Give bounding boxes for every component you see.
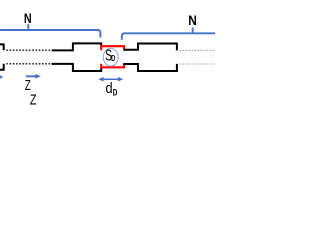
svg-text:N: N [188, 12, 197, 28]
wire: bottom-left dotted continuation [6, 63, 52, 65]
svg-text:N: N [24, 11, 32, 26]
wire: top wall left end cap [0, 44, 4, 50]
arrow z axis (clipped at left edge) [0, 75, 3, 80]
svg-text:D: D [111, 53, 115, 63]
wire: defect cell bottom (red) [101, 64, 124, 68]
node S_D ellipse [103, 48, 118, 66]
svg-text:D: D [113, 88, 118, 98]
wire: bottom wall left end cap [0, 64, 4, 70]
wire: top-left dotted continuation [6, 49, 52, 51]
arrow Z [26, 74, 41, 79]
wire: defect cell top (red) [101, 46, 124, 50]
wire: top-right dotted continuation [180, 49, 215, 51]
brace N right [122, 28, 215, 40]
wire: bottom wall right narrow + cell outline [123, 64, 177, 71]
wire: bottom-right dotted continuation [180, 63, 215, 65]
arrow d_D (defect length) [98, 77, 123, 82]
svg-text:Z: Z [30, 92, 37, 109]
svg-text:d: d [106, 81, 113, 97]
wire: top wall left cell outline [52, 43, 102, 50]
brace N left [0, 24, 100, 37]
wire: bottom wall left cell outline [52, 64, 102, 71]
wire: top wall right narrow + cell outline [123, 44, 177, 51]
